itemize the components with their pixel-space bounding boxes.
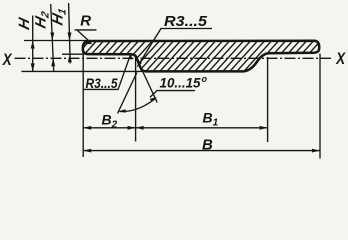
hatching xyxy=(47,36,339,80)
leader R underline xyxy=(75,29,97,31)
dimension B1 left arrowhead xyxy=(136,126,144,130)
dimension B right arrowhead xyxy=(312,149,320,153)
dimension H2 line xyxy=(51,4,54,71)
leader R3...5 top diagonal xyxy=(138,29,161,66)
axis X-X centerline xyxy=(15,57,332,59)
svg-text:X: X xyxy=(2,50,12,69)
top extension line xyxy=(24,40,88,42)
leader R3...5 bottom underline xyxy=(83,88,119,90)
leader R3...5 bottom diagonal xyxy=(118,55,130,89)
ext line B1 right xyxy=(267,57,269,142)
ext line B left xyxy=(82,54,84,157)
svg-text:10...15: 10...15 xyxy=(160,76,201,91)
leader R arrowhead xyxy=(84,41,93,45)
angle side left line xyxy=(118,73,137,114)
svg-text:R3...5: R3...5 xyxy=(86,75,118,91)
leader R diagonal xyxy=(78,31,92,43)
svg-text:X: X xyxy=(335,50,345,69)
svg-text:H1: H1 xyxy=(49,6,68,28)
bottom extension line xyxy=(22,70,143,72)
node X right label xyxy=(335,50,345,69)
dimension H1 top arrow (outside, pointing down) xyxy=(68,33,72,41)
dimension H1 line xyxy=(69,3,71,64)
label H xyxy=(16,15,33,31)
svg-text:H: H xyxy=(16,15,33,31)
dimension H1 bottom arrow (outside, pointing up at thin edge) xyxy=(68,54,72,62)
dimension B1 right arrowhead xyxy=(260,126,268,130)
angle arc right arrowhead xyxy=(150,97,157,102)
dimension B2 line xyxy=(83,127,135,129)
leader R3...5 bottom arrowhead xyxy=(129,53,132,60)
angle arc xyxy=(120,98,157,112)
svg-text:R3...5: R3...5 xyxy=(164,14,208,30)
ext line B2/B1 shared xyxy=(135,55,137,142)
dimension H line xyxy=(32,16,34,72)
angle side right line (slope edge extension) xyxy=(142,70,157,103)
svg-text:B: B xyxy=(202,136,213,153)
dimension B line xyxy=(83,150,320,152)
dimension B left arrowhead xyxy=(83,149,91,153)
thin-edge extension line xyxy=(62,53,84,55)
dimension B2 right arrowhead xyxy=(128,126,136,130)
dimension B2 left arrowhead xyxy=(83,126,91,130)
label H2 xyxy=(33,9,52,31)
blade outline stroke xyxy=(83,41,319,72)
svg-text:B1: B1 xyxy=(203,109,219,128)
leader 10...15 bend xyxy=(150,91,195,98)
dimension H2 top arrow (outside, pointing down) xyxy=(50,33,54,41)
dimension H2 bottom arrow (outside, pointing up at axis) xyxy=(51,58,55,66)
dimension B1 line xyxy=(136,127,268,129)
node X left label xyxy=(2,50,12,69)
angle arc left arrowhead xyxy=(119,109,126,113)
dimension H arrow down xyxy=(31,63,35,71)
leader R3...5 top arrowhead xyxy=(137,61,142,68)
label H1 xyxy=(49,6,68,28)
ext line B right xyxy=(319,54,321,159)
svg-text:R: R xyxy=(80,12,91,29)
leader R3...5 top underline xyxy=(161,28,213,30)
svg-text:o: o xyxy=(202,74,208,84)
dimension H arrow up xyxy=(31,41,35,49)
